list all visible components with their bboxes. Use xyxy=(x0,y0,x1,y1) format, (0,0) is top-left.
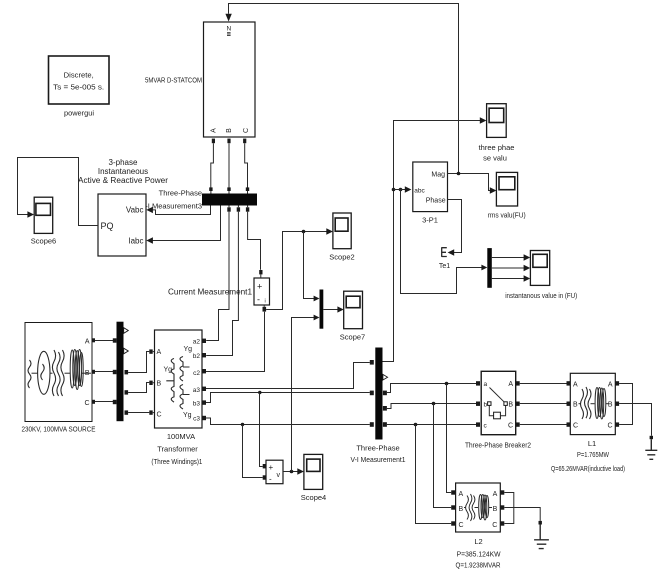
wire Phase output to terminator xyxy=(448,200,462,253)
svg-text:v: v xyxy=(277,472,281,479)
terminator Te1 xyxy=(442,247,447,257)
svg-text:Phase: Phase xyxy=(426,198,446,205)
demux2 output wire 1 xyxy=(492,257,526,259)
stub out of CM1 xyxy=(263,305,265,307)
V-I bar right port a xyxy=(383,391,387,396)
svg-text:Yg: Yg xyxy=(183,412,192,419)
svg-text:c2: c2 xyxy=(193,370,200,377)
svg-text:Three-Phase Breaker2: Three-Phase Breaker2 xyxy=(465,441,531,450)
svg-text:C: C xyxy=(84,400,89,407)
svg-text:+: + xyxy=(269,463,274,472)
svg-text:C: C xyxy=(243,128,250,133)
svg-text:instantanous value in (FU): instantanous value in (FU) xyxy=(505,291,577,300)
svg-text:A: A xyxy=(210,128,217,133)
svg-text:C: C xyxy=(459,522,464,529)
svg-text:Instantaneous: Instantaneous xyxy=(98,167,148,176)
svg-text:A: A xyxy=(157,349,162,356)
svg-text:Yg: Yg xyxy=(164,367,173,374)
L1 input port A xyxy=(567,381,571,385)
arrowhead into Scope4 xyxy=(297,468,304,474)
rms value scope xyxy=(496,172,517,206)
svg-text:three phae: three phae xyxy=(479,143,515,152)
transformer output port c2 xyxy=(202,369,206,373)
L2 output port B xyxy=(500,505,504,509)
svg-text:Scope2: Scope2 xyxy=(329,253,354,262)
wire source C to bus bar xyxy=(95,401,113,403)
bus bar left port A xyxy=(113,338,117,342)
svg-text:-: - xyxy=(257,295,260,305)
arrowhead 3 into instantaneous scope xyxy=(524,275,531,281)
transformer input port B xyxy=(149,381,152,385)
svg-text:a3: a3 xyxy=(193,387,201,394)
bus bar left port C xyxy=(113,400,117,404)
wire phase c down to L2 C xyxy=(416,425,452,524)
L1 output port A xyxy=(615,381,619,385)
svg-text:Scope6: Scope6 xyxy=(31,237,56,246)
breaker input port c xyxy=(476,422,480,426)
L1 output port C xyxy=(615,422,619,426)
svg-text:powergui: powergui xyxy=(64,109,94,118)
wire b3 to V-I measurement bar xyxy=(206,393,370,403)
svg-text:L1: L1 xyxy=(588,439,596,448)
junction on Scope2 wire xyxy=(302,230,306,234)
source port A xyxy=(92,338,95,342)
svg-text:A: A xyxy=(508,381,513,388)
arrowhead 1 into instantaneous scope xyxy=(524,254,531,260)
wire breaker B to L1 xyxy=(520,403,567,405)
breaker input port a xyxy=(476,381,480,385)
L1 input port C xyxy=(567,422,571,426)
wire bus bar to transformer B xyxy=(128,383,149,393)
measurement bar bottom port a xyxy=(227,207,230,211)
svg-text:C: C xyxy=(573,423,578,430)
wire: bar port b down to transformer b2 xyxy=(206,212,238,356)
stubs from top ports into bar xyxy=(211,191,248,194)
svg-text:B: B xyxy=(226,128,233,133)
transformer input port A xyxy=(149,349,152,353)
L2 input port B xyxy=(451,505,455,509)
Scope2 xyxy=(333,213,351,249)
ground G1 symbol xyxy=(645,439,657,459)
L1 output port B xyxy=(615,402,619,406)
arrowhead into Scope6 xyxy=(27,211,34,217)
bus bar left port B xyxy=(113,370,117,374)
svg-text:+: + xyxy=(257,282,262,292)
wire junction2 down to mux2 input xyxy=(401,190,484,294)
wire L1 B to ground G1 xyxy=(619,404,651,436)
svg-text:Q=65.26MVAR(inductive load): Q=65.26MVAR(inductive load) xyxy=(551,466,625,473)
ground G2 symbol xyxy=(534,525,549,549)
transformer output port a2 xyxy=(202,339,206,343)
demux2 output wire 3 xyxy=(492,278,526,280)
transformer input port C xyxy=(149,410,152,414)
wire: bar port a down to transformer a2 xyxy=(206,212,229,341)
bus bar hollow arrow 1 xyxy=(124,328,129,334)
svg-text:B: B xyxy=(459,506,464,513)
L2 input port A xyxy=(451,490,455,494)
breaker output port C xyxy=(516,422,520,426)
arrowhead into Te1 xyxy=(448,249,455,255)
source port C xyxy=(92,400,95,404)
V-I bar left port A xyxy=(370,360,374,365)
svg-text:Yg: Yg xyxy=(184,346,193,353)
3-P1 sequence analyzer block xyxy=(413,162,448,212)
bus bar hollow arrow 2 xyxy=(124,348,129,354)
V-I bar Vabc measurement wire up to scope and 3-P1 xyxy=(383,121,483,362)
wire: 3-P1 Mag feedback to D-STATCOM N input xyxy=(229,4,459,174)
svg-text:100MVA: 100MVA xyxy=(167,432,195,441)
svg-text:Iabc: Iabc xyxy=(128,236,143,245)
junction dot phase a to L2 xyxy=(445,382,449,386)
100MVA three-winding transformer T1 xyxy=(155,330,203,428)
wire junction to 3-P1 abc input xyxy=(394,189,408,191)
Three-Phase Measurement3 label xyxy=(145,189,202,211)
svg-text:Three-Phase: Three-Phase xyxy=(356,444,399,453)
svg-text:3-P1: 3-P1 xyxy=(422,216,438,225)
Scope6 xyxy=(34,197,53,233)
bus bar right port 2 xyxy=(125,390,129,394)
arrowhead into 3-P1 xyxy=(405,186,412,192)
bus bar right port 1 xyxy=(125,370,129,374)
svg-text:Scope4: Scope4 xyxy=(301,493,326,502)
svg-text:-: - xyxy=(269,475,272,484)
wire Mag output to rms scope xyxy=(448,174,493,191)
V-I bar left port B xyxy=(370,391,374,396)
wire mux1 output to Scope7 xyxy=(323,309,339,311)
svg-text:C: C xyxy=(508,423,513,430)
svg-text:Transformer: Transformer xyxy=(157,445,198,454)
svg-text:se valu: se valu xyxy=(483,154,507,163)
svg-text:Vabc: Vabc xyxy=(126,206,144,215)
v+ input port xyxy=(263,464,266,468)
L2 output port A xyxy=(500,490,504,494)
svg-text:A: A xyxy=(493,491,498,498)
wire junction down to +v input xyxy=(260,393,263,467)
arrowhead into Scope7 xyxy=(337,306,343,312)
arrowhead into Iabc xyxy=(146,237,153,243)
demux2 output wire 2 xyxy=(492,267,526,269)
arrowhead into N port xyxy=(225,14,231,22)
wire phase b down to L2 B xyxy=(434,404,452,508)
svg-text:Discrete,: Discrete, xyxy=(64,71,94,80)
bus bar B1 xyxy=(117,322,124,422)
svg-text:Q=1.9238MVAR: Q=1.9238MVAR xyxy=(456,561,501,570)
demux2 for instantaneous scope xyxy=(487,248,492,288)
transformer output port c3 xyxy=(202,416,206,420)
junction dot on Mag wire (feedback tap) xyxy=(457,172,461,176)
svg-text:A: A xyxy=(459,491,464,498)
PQ block (3-phase instantaneous power) xyxy=(98,194,146,256)
source port B xyxy=(92,370,95,374)
V-I bar hollow arrow xyxy=(383,374,388,380)
junction dot 1 on Vabc wire xyxy=(392,188,396,192)
measurement bar bottom port c xyxy=(246,207,249,211)
current measurement output port xyxy=(263,307,267,312)
svg-text:A: A xyxy=(85,339,90,346)
junction on v output wire xyxy=(290,470,294,474)
measurement bar bottom port b xyxy=(237,207,240,211)
wire junction down to -v input xyxy=(243,425,263,478)
v- input port xyxy=(263,475,266,479)
svg-text:-I Measurement3: -I Measurement3 xyxy=(145,202,202,211)
wire: bar port c to Current Measurement1 input xyxy=(248,212,261,270)
svg-text:N: N xyxy=(226,26,231,33)
measurement bar top port C xyxy=(246,187,249,191)
breaker input port b xyxy=(476,402,480,406)
V-I bar label xyxy=(351,444,406,465)
junction on b3 wire to voltage measurement plus xyxy=(258,391,261,394)
arrowhead 2 into instantaneous scope xyxy=(524,265,531,271)
V-I bar right port b xyxy=(383,406,387,411)
svg-text:c3: c3 xyxy=(193,415,200,422)
svg-text:a2: a2 xyxy=(193,338,201,345)
svg-text:PQ: PQ xyxy=(101,221,114,231)
wire: PQ output to Scope6 xyxy=(18,158,99,226)
svg-text:b2: b2 xyxy=(193,353,201,360)
mux1 for Scope7 xyxy=(320,290,324,329)
wire phase a down to L2 A xyxy=(447,384,452,493)
L2 input port C xyxy=(451,521,455,525)
wire L2 A to neutral xyxy=(504,493,514,508)
svg-text:Scope7: Scope7 xyxy=(340,333,365,342)
svg-text:Ts = 5e-005 s.: Ts = 5e-005 s. xyxy=(53,83,104,92)
wire V-I b to breaker xyxy=(387,404,476,409)
arrowhead into mux1 input1 xyxy=(314,296,320,302)
svg-text:5MVAR D-STATCOM: 5MVAR D-STATCOM xyxy=(145,76,202,85)
wire c3 to V-I measurement bar xyxy=(206,418,370,425)
svg-text:V-I Measurement1: V-I Measurement1 xyxy=(351,455,406,464)
svg-text:A: A xyxy=(608,381,613,388)
L2 output port C xyxy=(500,521,504,525)
svg-text:L2: L2 xyxy=(474,537,482,546)
svg-text:b: b xyxy=(484,402,488,409)
wire L2 C to neutral xyxy=(504,508,514,524)
wire breaker C to L1 xyxy=(520,424,567,426)
wire: bar Iabc output to PQ block xyxy=(152,206,220,241)
svg-text:3-phase: 3-phase xyxy=(109,158,138,167)
svg-text:abc: abc xyxy=(414,188,425,195)
current measurement input port xyxy=(259,270,262,274)
wire source B to bus bar xyxy=(95,371,113,373)
Three-Phase Measurement3 bar (block icon) xyxy=(202,194,257,206)
instantaneous value scope xyxy=(530,251,549,286)
wire bus bar to transformer C xyxy=(128,412,149,414)
svg-text:Three-Phase: Three-Phase xyxy=(159,189,202,198)
transformer output port b2 xyxy=(202,353,206,357)
powergui block xyxy=(49,56,110,104)
L2 label xyxy=(456,537,502,570)
junction dot phase b to L2 xyxy=(432,402,436,406)
svg-text:Active & Reactive Power: Active & Reactive Power xyxy=(78,176,168,185)
wire L1 C to neutral xyxy=(619,404,632,425)
stubs into transformer xyxy=(153,352,155,413)
svg-text:230KV, 100MVA SOURCE: 230KV, 100MVA SOURCE xyxy=(22,425,96,434)
stub into CM1 xyxy=(260,274,262,278)
arrowhead into Scope2 xyxy=(326,228,333,234)
ground G1 port xyxy=(650,436,653,439)
three phase scope xyxy=(487,104,507,138)
wire: bar Vabc output to PQ block xyxy=(152,206,210,215)
svg-text:Mag: Mag xyxy=(431,171,445,178)
wire v output to Scope4 xyxy=(283,471,300,473)
svg-text:rms valu(FU): rms valu(FU) xyxy=(488,211,526,220)
measurement bar top port A xyxy=(209,187,212,191)
wire CM1 output right and up to Scope2 xyxy=(266,232,328,310)
svg-text:P=1.765MW: P=1.765MW xyxy=(577,450,610,459)
wire L1 A to neutral xyxy=(619,384,632,404)
voltage measurement block +v- xyxy=(266,460,283,484)
L1 input port B xyxy=(567,402,571,406)
junction dot phase c to L2 xyxy=(414,423,418,427)
Three-Phase V-I Measurement1 bar xyxy=(375,348,382,440)
svg-text:C: C xyxy=(157,412,162,419)
measurement bar top port B xyxy=(227,187,230,191)
wire bus bar to transformer A xyxy=(128,352,149,373)
svg-text:(Three Windings)1: (Three Windings)1 xyxy=(151,457,202,466)
D-STATCOM bottom port A xyxy=(212,139,215,144)
wire a3 to V-I measurement bar xyxy=(206,363,370,389)
breaker output port B xyxy=(516,402,520,406)
svg-text:B: B xyxy=(493,506,498,513)
230KV 100MVA source block xyxy=(25,323,92,422)
Scope4 xyxy=(304,454,323,489)
Current Measurement1 block xyxy=(254,278,270,305)
bus bar right port 3 xyxy=(125,410,129,414)
svg-text:P=385.124KW: P=385.124KW xyxy=(457,550,502,559)
svg-text:B: B xyxy=(573,402,578,409)
junction dot 2 on Vabc wire xyxy=(399,188,403,192)
load L1 block xyxy=(570,373,615,434)
V-I bar left port C xyxy=(370,422,374,427)
L1 label xyxy=(551,439,625,473)
arrowhead into Vabc xyxy=(146,207,153,213)
transformer label xyxy=(151,432,202,466)
wire source A to bus bar xyxy=(95,340,113,342)
stubs from bar to bottom ports xyxy=(229,206,248,208)
load L2 block xyxy=(456,483,501,532)
junction on c3 wire to voltage measurement minus xyxy=(241,423,244,426)
svg-text:Current Measurement1: Current Measurement1 xyxy=(168,287,253,296)
arrowhead into mux1 input2 xyxy=(314,315,320,321)
transformer output port a3 xyxy=(202,387,206,391)
wire D-STATCOM C to measurement bar xyxy=(245,143,248,187)
wire D-STATCOM A to measurement bar xyxy=(211,143,214,187)
wire L2 B to ground G2 xyxy=(504,508,540,521)
wire c2 up to current measurement output node xyxy=(206,312,265,372)
D-STATCOM bottom port B xyxy=(227,139,230,144)
svg-text:a: a xyxy=(484,381,488,388)
svg-text:C: C xyxy=(492,522,497,529)
arrowhead into mux2 xyxy=(481,265,487,271)
Scope7 xyxy=(344,291,363,329)
wire breaker A to L1 xyxy=(520,383,567,385)
Three-Phase Breaker2 block xyxy=(481,371,516,434)
ground G2 port xyxy=(539,521,542,525)
D-STATCOM subsystem U1 xyxy=(204,22,256,137)
breaker output port A xyxy=(516,381,520,385)
svg-text:Te1: Te1 xyxy=(439,263,450,270)
arrowhead into rms scope xyxy=(490,187,497,193)
wire V-I c to breaker xyxy=(387,424,476,426)
wire V-I a to breaker xyxy=(387,384,476,393)
transformer output port b3 xyxy=(202,400,206,404)
arrowhead into three phase scope xyxy=(480,117,487,123)
svg-text:b3: b3 xyxy=(193,401,201,408)
three phase scope label xyxy=(479,143,515,163)
svg-text:i: i xyxy=(265,299,266,305)
3-phase Instantaneous Active & Reactive Power label xyxy=(78,158,168,185)
svg-text:B: B xyxy=(608,402,613,409)
svg-text:B: B xyxy=(508,402,513,409)
wire junction up to mux1 input2 xyxy=(292,318,316,472)
wire junction down to mux1 input1 xyxy=(304,232,316,299)
D-STATCOM bottom port C xyxy=(243,139,246,144)
svg-text:A: A xyxy=(573,381,578,388)
svg-text:B: B xyxy=(157,381,162,388)
wire D-STATCOM B to measurement bar xyxy=(228,143,230,187)
svg-text:C: C xyxy=(607,423,612,430)
V-I bar right port c xyxy=(383,422,387,427)
